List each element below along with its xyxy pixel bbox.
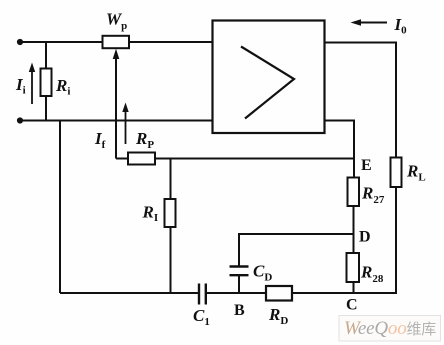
svg-text:D: D: [359, 229, 371, 246]
wire junction to RI: [170, 159, 172, 200]
wire RP to node E: [155, 158, 354, 160]
wire R28 to node C: [353, 282, 355, 293]
arrow Io: [351, 19, 388, 25]
resistor RP: [128, 153, 155, 165]
resistor R28: [347, 253, 360, 282]
wire R27 to node D: [353, 206, 355, 254]
wire CD to node D: [239, 234, 354, 267]
resistor R27: [348, 178, 360, 207]
capacitor C1: [199, 284, 206, 305]
arrow Ii: [29, 63, 35, 105]
resistor RI: [165, 199, 176, 227]
potentiometer Wp: [103, 36, 130, 48]
capacitor CD: [230, 267, 249, 276]
amplifier box U1: [213, 21, 325, 134]
bottom rail right segment: [292, 292, 397, 294]
resistor Ri: [41, 69, 52, 97]
arrow If: [122, 103, 128, 145]
wire RL to bottom rail: [395, 187, 397, 293]
wire node B up to CD: [238, 276, 240, 294]
wire top input to Wp: [20, 41, 103, 43]
bottom rail middle segment: [206, 292, 267, 294]
resistor RD: [266, 286, 292, 301]
wiper wire with arrow into Wp: [113, 49, 120, 159]
resistor RL: [391, 158, 402, 188]
svg-text:C: C: [346, 297, 358, 314]
wire Wp to amp: [129, 41, 214, 43]
wire wiper to RP: [116, 158, 129, 160]
watermark box: [339, 316, 441, 342]
amplifier chevron: [241, 47, 294, 119]
wire RI to bottom rail: [170, 227, 172, 293]
wire left drop: [59, 121, 61, 294]
input terminal bottom: [17, 117, 23, 123]
svg-text:B: B: [234, 302, 245, 319]
input terminal top: [17, 39, 23, 45]
svg-text:WeeQoo维库: WeeQoo维库: [344, 318, 436, 339]
wire amp lower out to E branch: [325, 121, 355, 178]
bottom rail left segment: [60, 292, 199, 294]
wire amp out to RL branch: [325, 43, 397, 159]
wire lower input to amp: [20, 120, 214, 122]
resistor Ri leads: [45, 42, 47, 121]
svg-text:E: E: [361, 157, 372, 174]
